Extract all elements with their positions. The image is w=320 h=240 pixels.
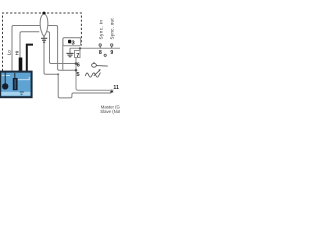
ground at generator (69, 48, 71, 53)
water light band (1, 92, 30, 96)
wire Lo top run (12, 26, 76, 72)
electrode rod holder (27, 45, 33, 80)
svg-text:11: 11 (113, 85, 119, 91)
svg-text:Hi: Hi (15, 51, 20, 55)
water streaks (2, 76, 30, 80)
svg-text:Lo: Lo (6, 50, 11, 56)
svg-text:9: 9 (110, 50, 113, 56)
pin 7 connector box (75, 51, 81, 58)
node dot on cage top (42, 12, 45, 15)
waveform icon with arrow (85, 70, 100, 77)
svg-text:Sync. in: Sync. in (98, 20, 103, 40)
pin 8 connector (99, 46, 101, 48)
pin 6 junction (75, 62, 78, 65)
electrode Lo stem (14, 73, 16, 79)
wire from cage to connector 3 (63, 38, 81, 70)
wire Hi top run (20, 32, 39, 58)
svg-text:Slave (Notl: Slave (Notl (100, 109, 120, 114)
ground bars under loop (41, 38, 47, 42)
electrode Hi (hanging) (19, 58, 23, 72)
svg-text:8: 8 (99, 50, 102, 56)
connector 3 blob (68, 40, 71, 44)
pin 7 stub (79, 48, 81, 50)
svg-text:7: 7 (76, 53, 79, 59)
small ring above fish (104, 54, 106, 56)
wire ground from loop down to generator pin 11 (44, 35, 112, 98)
junction dot at ground bus (57, 73, 59, 75)
tank walls (0, 72, 31, 98)
small marks in water (20, 92, 24, 94)
electrode Lo (plate) (13, 78, 18, 90)
electrode ball stem (4, 73, 6, 84)
arrowhead into pin 11 (110, 89, 114, 92)
electrode ball (2, 83, 8, 89)
generator box (70, 48, 120, 90)
pin 5 junction (75, 69, 78, 72)
faraday cage (dashed) (3, 13, 82, 71)
pin 9 connector (111, 46, 113, 48)
svg-text:Sync. out: Sync. out (109, 18, 114, 40)
loop antenna (ellipse) (40, 14, 48, 37)
fish icon (92, 62, 108, 67)
connector 3 box (63, 38, 81, 46)
